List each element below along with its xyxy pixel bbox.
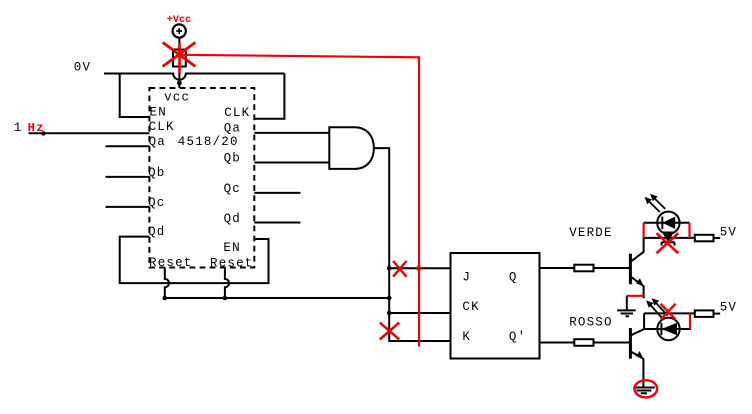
svg-text:Q': Q'	[509, 330, 526, 344]
svg-text:CLK: CLK	[149, 120, 175, 134]
svg-text:Q: Q	[509, 271, 518, 285]
svg-text:Hz: Hz	[28, 121, 45, 135]
svg-text:Qa: Qa	[224, 122, 241, 136]
svg-text:Qd: Qd	[148, 225, 165, 239]
svg-text:VERDE: VERDE	[569, 226, 613, 240]
svg-text:EN: EN	[223, 241, 240, 255]
svg-text:Qc: Qc	[148, 196, 165, 210]
svg-text:0V: 0V	[74, 60, 91, 74]
svg-text:Qc: Qc	[224, 182, 241, 196]
svg-text:Reset: Reset	[149, 256, 193, 270]
svg-text:4518/20: 4518/20	[178, 135, 239, 149]
svg-text:1: 1	[14, 121, 23, 135]
svg-text:K: K	[462, 330, 471, 344]
svg-text:Qb: Qb	[224, 151, 241, 165]
svg-text:vcc: vcc	[164, 90, 190, 104]
svg-text:EN: EN	[150, 106, 167, 120]
svg-text:ROSSO: ROSSO	[569, 316, 613, 330]
svg-text:Qa: Qa	[149, 135, 166, 149]
svg-text:J: J	[462, 271, 471, 285]
svg-text:CK: CK	[462, 300, 479, 314]
svg-text:Reset: Reset	[210, 256, 254, 270]
svg-text:5V: 5V	[720, 226, 737, 240]
svg-text:CLK: CLK	[224, 106, 250, 120]
svg-text:5V: 5V	[720, 301, 737, 315]
svg-text:Qd: Qd	[224, 212, 241, 226]
svg-text:+Vcc: +Vcc	[167, 15, 191, 26]
svg-text:Qb: Qb	[148, 166, 165, 180]
